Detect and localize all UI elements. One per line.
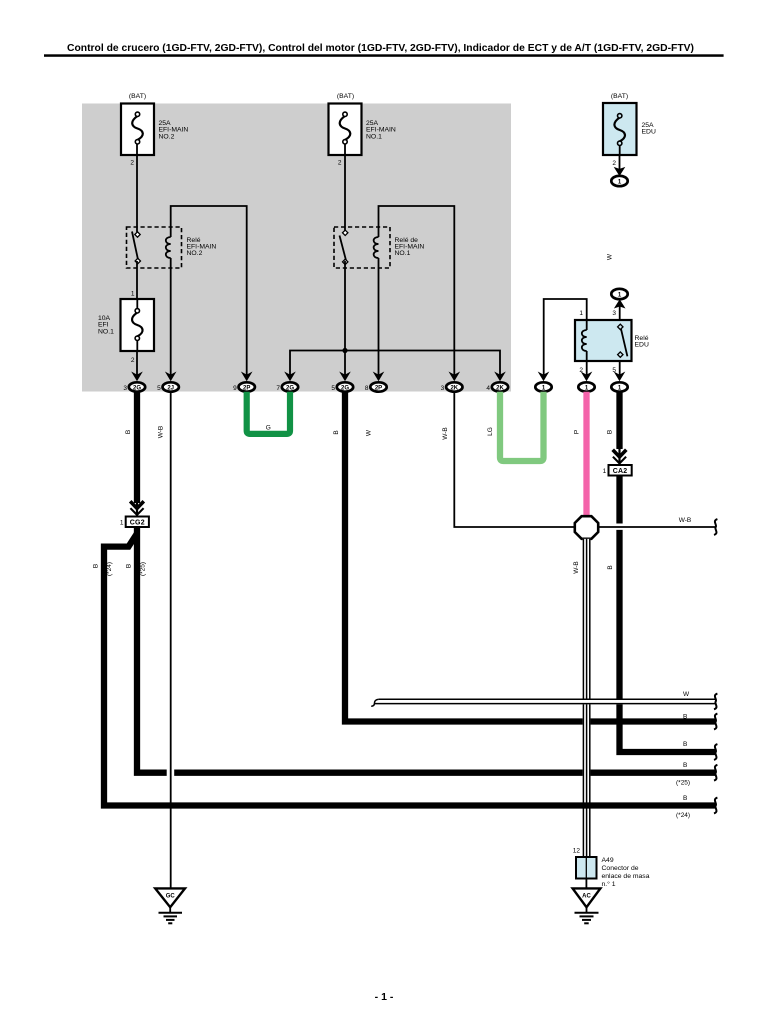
connector 1 below fuse EDU: [611, 176, 627, 186]
ground GC: [155, 888, 185, 923]
relay de EFI-MAIN NO.1: [334, 227, 424, 268]
svg-text:B: B: [125, 430, 132, 434]
wire fuse1 to relay1: [136, 155, 138, 232]
wire fuse EDU to connector 1: [619, 155, 621, 172]
connector 3(2G): [123, 372, 145, 393]
svg-text:NO.2: NO.2: [187, 250, 203, 257]
node octagon junction: [575, 516, 598, 539]
wire A49 to ground AC: [585, 879, 587, 889]
svg-text:LG: LG: [487, 427, 494, 436]
wire P pink from connector 1 to octagon: [583, 392, 589, 516]
connector 7(2G): [276, 372, 298, 393]
node right edge labels: [676, 691, 690, 819]
svg-text:2P: 2P: [375, 385, 382, 391]
svg-text:W: W: [607, 253, 614, 260]
svg-text:2G: 2G: [286, 385, 294, 391]
wire W-B from 5(2J) to ground: [170, 392, 172, 889]
wire relay EDU pin1 to connector: [544, 299, 587, 376]
svg-text:5: 5: [157, 385, 161, 392]
wire coil1 link to 9(2P): [171, 206, 247, 376]
connector 5(2G): [331, 372, 353, 393]
wire double chevron into CG2: [136, 502, 138, 517]
svg-text:B: B: [683, 762, 687, 769]
svg-text:GC: GC: [166, 894, 176, 900]
svg-text:1: 1: [131, 291, 135, 298]
svg-text:B: B: [607, 565, 614, 569]
svg-text:EDU: EDU: [635, 342, 649, 349]
svg-text:NO.2: NO.2: [159, 133, 175, 140]
svg-text:5: 5: [331, 385, 335, 392]
fuse 25A EFI-MAIN NO.2: [121, 93, 188, 167]
svg-text:CG2: CG2: [130, 520, 145, 527]
wire B from 3(2G) down: [134, 392, 140, 503]
svg-text:1: 1: [603, 468, 607, 475]
fuse 25A EDU: [603, 93, 656, 167]
svg-text:W-B: W-B: [573, 561, 580, 574]
wire B (*24) branch: [104, 534, 716, 806]
svg-text:W: W: [683, 691, 690, 698]
svg-text:(BAT): (BAT): [129, 93, 146, 100]
fuse 25A EFI-MAIN NO.1: [329, 93, 396, 167]
svg-text:2G: 2G: [133, 385, 141, 391]
svg-text:B: B: [607, 430, 614, 434]
svg-text:(*25): (*25): [140, 562, 147, 576]
svg-text:B: B: [683, 741, 687, 748]
wire W-B triple line octagon to A49: [573, 539, 591, 857]
svg-text:- 1 -: - 1 -: [375, 991, 394, 1003]
svg-text:Conector de: Conector de: [602, 865, 639, 872]
wire B from connector 1 to CA2: [616, 392, 622, 449]
wire W horizontal double line: [371, 699, 715, 706]
connector 9(2P): [233, 372, 255, 393]
svg-text:W-B: W-B: [679, 517, 692, 524]
svg-text:2: 2: [612, 160, 616, 167]
connector 1 (LG): [535, 372, 551, 392]
svg-text:(BAT): (BAT): [611, 93, 628, 100]
connector 1 above relay EDU: [611, 289, 627, 299]
wire coil2 down to 8(2P): [378, 258, 380, 376]
svg-text:EDU: EDU: [642, 129, 656, 136]
connector A49: [573, 848, 650, 889]
svg-text:B: B: [683, 714, 687, 721]
svg-text:enlace de masa: enlace de masa: [602, 873, 650, 880]
svg-text:(*25): (*25): [676, 780, 690, 787]
wire LG jumper 4(2K) to connector 1: [500, 392, 544, 461]
svg-text:(BAT): (BAT): [337, 93, 354, 100]
svg-text:2P: 2P: [243, 385, 250, 391]
connector 3(2K): [441, 372, 463, 393]
wire B (*25) from CG2 to right edge: [137, 527, 716, 773]
wire relay1 switch to 10A fuse: [136, 261, 138, 299]
svg-text:3: 3: [123, 385, 127, 392]
connector 1 (P): [578, 372, 594, 392]
svg-text:2G: 2G: [341, 385, 349, 391]
title: [44, 43, 724, 57]
svg-text:n.° 1: n.° 1: [602, 880, 616, 888]
svg-text:(*24): (*24): [676, 812, 690, 819]
connector 8(2P): [365, 372, 387, 393]
svg-text:12: 12: [573, 848, 581, 855]
svg-text:W: W: [366, 429, 373, 436]
svg-text:AC: AC: [582, 894, 591, 900]
wire coil2 link to 3(2K): [379, 206, 455, 376]
svg-text:2: 2: [130, 160, 134, 167]
relay box background: [82, 104, 511, 392]
svg-text:9: 9: [233, 385, 237, 392]
wire W-B from 3(2K) to octagon: [454, 392, 574, 527]
wire B from 5(2G) to right edge: [345, 392, 716, 722]
svg-text:W-B: W-B: [158, 426, 165, 439]
wire continuation squiggles at right edge: [714, 519, 717, 813]
wire coil1 down to 5(2J): [170, 258, 172, 376]
svg-text:1: 1: [579, 310, 583, 317]
svg-text:W-B: W-B: [442, 427, 449, 440]
wire W-B octagon to right edge: [598, 526, 715, 528]
svg-text:G: G: [266, 424, 271, 431]
relay EFI-MAIN NO.2: [127, 227, 217, 268]
svg-text:NO.1: NO.1: [98, 328, 114, 335]
svg-text:B: B: [333, 430, 340, 434]
svg-text:4: 4: [486, 385, 490, 392]
connector CG2: [120, 517, 149, 528]
svg-text:CA2: CA2: [613, 468, 628, 475]
svg-text:B: B: [683, 795, 687, 802]
svg-text:2: 2: [338, 160, 342, 167]
svg-text:B: B: [126, 564, 133, 568]
svg-text:2K: 2K: [450, 385, 458, 391]
svg-text:A49: A49: [602, 857, 614, 864]
wire fuse2 to relay2: [344, 155, 346, 232]
svg-text:P: P: [574, 430, 581, 434]
svg-text:3: 3: [441, 385, 445, 392]
wire 10A fuse to 3(2G): [136, 351, 138, 376]
connector 4(2K): [486, 372, 508, 393]
svg-text:7: 7: [276, 385, 280, 392]
relay EDU: [575, 320, 649, 361]
svg-text:B: B: [93, 564, 100, 568]
connector 5(2J): [157, 372, 179, 393]
wire relay2 switch to junction: [344, 261, 346, 376]
wire relay EDU pin2 down: [586, 361, 588, 376]
connector 1 (B): [611, 372, 627, 392]
wire G jumper 9(2P) to 7(2G): [247, 392, 290, 434]
svg-text:2: 2: [131, 357, 135, 364]
connector CA2: [603, 465, 632, 476]
ground AC: [573, 888, 601, 923]
wire double chevron into CA2: [618, 448, 620, 465]
wire relay EDU pin3 up arrow: [619, 302, 621, 320]
svg-text:8: 8: [365, 385, 369, 392]
wire relay EDU pin5 down: [619, 361, 621, 376]
fuse 10A EFI NO.1: [98, 291, 154, 365]
svg-text:NO.1: NO.1: [395, 250, 411, 257]
svg-text:2J: 2J: [167, 385, 174, 391]
svg-text:1: 1: [120, 520, 124, 527]
wire B from CA2 down and right: [620, 476, 716, 753]
svg-text:2K: 2K: [496, 385, 504, 391]
wire junction horizontal: [290, 351, 500, 377]
svg-text:3: 3: [612, 310, 616, 317]
node junction: [342, 348, 347, 353]
svg-text:Control de crucero (1GD-FTV, 2: Control de crucero (1GD-FTV, 2GD-FTV), C…: [67, 43, 694, 54]
svg-text:NO.1: NO.1: [366, 133, 382, 140]
